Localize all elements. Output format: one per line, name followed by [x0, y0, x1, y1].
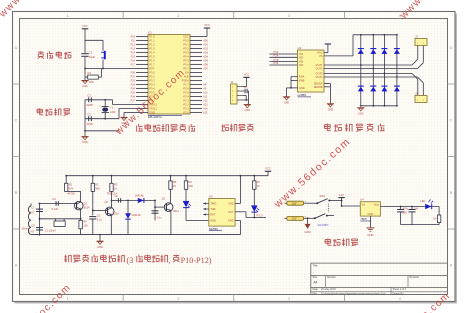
svg-text:0.47: 0.47	[29, 211, 35, 215]
svg-text:AD5: AD5	[203, 59, 208, 62]
svg-text:Size: Size	[313, 276, 318, 279]
svg-text:25V: 25V	[403, 211, 408, 214]
svg-text:Q3: Q3	[162, 196, 166, 200]
svg-text:A4: A4	[314, 280, 318, 284]
svg-text:P1.4: P1.4	[149, 50, 155, 54]
svg-text:0.1u: 0.1u	[97, 218, 103, 222]
svg-text:OUT3: OUT3	[316, 71, 323, 75]
svg-text:GND: GND	[245, 109, 251, 112]
svg-text:P3.2: P3.2	[149, 78, 155, 82]
svg-text:P2.6: P2.6	[183, 86, 189, 90]
svg-text:Drawn By:: Drawn By:	[393, 292, 405, 295]
svg-text:0.47: 0.47	[29, 229, 35, 233]
svg-text:A: A	[450, 263, 453, 268]
svg-text:R1: R1	[88, 71, 92, 75]
svg-text:P37: P37	[131, 99, 136, 102]
svg-text:R4: R4	[83, 220, 87, 224]
svg-text:L298N: L298N	[298, 93, 307, 97]
svg-text:IN4: IN4	[299, 63, 304, 67]
svg-text:P2.0: P2.0	[183, 110, 189, 114]
svg-text:C8: C8	[31, 224, 35, 228]
svg-text:P0.7: P0.7	[183, 66, 189, 70]
svg-text:P2.5: P2.5	[183, 90, 189, 94]
svg-text:P16: P16	[274, 61, 279, 65]
svg-text:100: 100	[83, 224, 88, 228]
svg-text:1K: 1K	[114, 187, 117, 191]
svg-text:P32: P32	[131, 79, 136, 82]
svg-text:VCC: VCC	[204, 23, 210, 27]
svg-text:22PF: 22PF	[87, 122, 94, 126]
svg-text:GND: GND	[82, 85, 88, 88]
svg-text:10uF: 10uF	[89, 55, 96, 59]
svg-text:AD1: AD1	[203, 43, 208, 46]
svg-text:22PF: 22PF	[87, 103, 94, 107]
svg-text:P14: P14	[131, 51, 136, 54]
svg-text:L2 10mH: L2 10mH	[45, 229, 56, 233]
svg-text:IN2: IN2	[299, 55, 304, 59]
svg-text:C7: C7	[31, 205, 35, 209]
svg-text:GND: GND	[228, 218, 234, 222]
svg-text:P16: P16	[131, 59, 136, 62]
svg-text:P3.0: P3.0	[149, 70, 155, 74]
svg-text:P1.0: P1.0	[257, 213, 263, 217]
svg-text:VS: VS	[319, 54, 323, 58]
svg-text:NE555: NE555	[209, 227, 219, 231]
svg-text:470u: 470u	[403, 208, 409, 211]
svg-text:Vin: Vin	[362, 203, 366, 207]
svg-text:300: 300	[188, 184, 193, 188]
svg-text:THR: THR	[210, 207, 215, 211]
svg-text:File:: File:	[313, 292, 318, 295]
svg-text:D: D	[15, 45, 18, 50]
svg-text:Vout: Vout	[374, 203, 379, 207]
svg-text:TRIG: TRIG	[210, 201, 216, 205]
svg-text:GND: GND	[97, 246, 103, 249]
svg-text:GND: GND	[368, 212, 374, 216]
svg-text:SW-DPDT: SW-DPDT	[318, 224, 330, 227]
svg-text:P35: P35	[131, 91, 136, 94]
svg-text:OUT2: OUT2	[316, 66, 323, 70]
svg-text:U2: U2	[298, 46, 302, 50]
svg-text:P15: P15	[131, 55, 136, 58]
svg-text:P2.1: P2.1	[183, 106, 189, 110]
svg-text:GND: GND	[358, 113, 364, 116]
svg-text:OUT1: OUT1	[316, 63, 323, 67]
svg-text:SW1: SW1	[320, 194, 326, 198]
svg-text:10K: 10K	[89, 80, 94, 84]
svg-text:P13: P13	[131, 47, 136, 50]
svg-text:P10-P12): P10-P12)	[181, 256, 212, 265]
svg-text:Date:: Date:	[313, 288, 319, 291]
svg-text:AD3: AD3	[203, 51, 208, 54]
svg-text:AD7: AD7	[203, 67, 208, 70]
svg-text:J1: J1	[231, 80, 234, 84]
svg-text:AD2: AD2	[203, 47, 208, 50]
svg-text:Sheet 1 of 1: Sheet 1 of 1	[393, 288, 407, 291]
svg-text:-: -	[282, 217, 283, 221]
svg-text:C2: C2	[87, 94, 91, 98]
svg-text:Number: Number	[327, 276, 336, 279]
svg-text:E:\design\jinshu-jiance\danpia: E:\design\jinshu-jiance\danpianji-zuixia…	[321, 292, 386, 295]
svg-text:C3: C3	[87, 112, 91, 116]
svg-text:J2: J2	[415, 34, 418, 38]
svg-text:P0.5: P0.5	[183, 58, 189, 62]
svg-text:P2.2: P2.2	[183, 102, 189, 106]
svg-text:ENB: ENB	[299, 78, 305, 82]
svg-text:AD6: AD6	[203, 63, 208, 66]
svg-text:1K: 1K	[257, 184, 260, 188]
svg-text:47K: 47K	[69, 187, 74, 191]
svg-text:9014: 9014	[173, 209, 179, 213]
svg-text:Title: Title	[313, 264, 318, 268]
svg-text:A15: A15	[203, 111, 208, 114]
svg-text:R5: R5	[173, 180, 177, 184]
svg-text:P0.1: P0.1	[183, 42, 189, 46]
svg-text:P11: P11	[131, 39, 136, 42]
svg-text:D: D	[450, 45, 453, 50]
svg-text:0.1u: 0.1u	[157, 217, 162, 220]
svg-text:P12: P12	[131, 43, 136, 46]
svg-text:10mH: 10mH	[21, 227, 28, 231]
svg-text:P1.1: P1.1	[149, 38, 155, 42]
svg-text:R2: R2	[95, 183, 99, 187]
svg-text:1.5V: 1.5V	[292, 203, 297, 206]
svg-text:GND: GND	[284, 101, 290, 104]
svg-text:R7: R7	[257, 180, 261, 184]
svg-text:U4: U4	[360, 198, 364, 202]
svg-text:VCC: VCC	[265, 167, 271, 171]
svg-text:C: C	[450, 118, 453, 123]
svg-text:TRD C1A: TRD C1A	[107, 193, 118, 196]
svg-text:SENSB: SENSB	[314, 85, 323, 89]
svg-text:P0.2: P0.2	[183, 46, 189, 50]
svg-text:IN3: IN3	[299, 60, 304, 64]
svg-text:GND: GND	[149, 110, 155, 114]
svg-text:B: B	[450, 190, 453, 195]
svg-text:A13: A13	[203, 103, 208, 106]
svg-text:P10: P10	[131, 35, 136, 38]
svg-text:,: ,	[168, 256, 170, 265]
svg-text:P1.2: P1.2	[149, 42, 155, 46]
svg-text:C4: C4	[52, 197, 56, 201]
svg-text:Q2: Q2	[105, 200, 109, 204]
svg-text:AD0: AD0	[203, 39, 208, 42]
svg-text:VCC: VCC	[183, 34, 189, 38]
svg-text:P31: P31	[131, 75, 136, 78]
svg-text:B: B	[15, 190, 18, 195]
svg-text:ENA: ENA	[299, 75, 305, 79]
svg-text:P15: P15	[274, 58, 279, 62]
svg-text:GND: GND	[210, 218, 216, 222]
svg-text:P34: P34	[131, 87, 136, 90]
svg-text:A10: A10	[203, 91, 208, 94]
svg-text:Revision: Revision	[410, 276, 420, 279]
svg-text:Y1: Y1	[110, 105, 114, 109]
svg-text:VDD: VDD	[228, 201, 234, 205]
svg-text:9014: 9014	[113, 211, 119, 215]
svg-text:VCC: VCC	[82, 24, 88, 28]
svg-text:P36: P36	[131, 95, 136, 98]
svg-text:P0.6: P0.6	[183, 62, 189, 66]
svg-text:U1: U1	[148, 30, 152, 34]
svg-text:P2.7: P2.7	[183, 82, 189, 86]
svg-text:12M: 12M	[110, 110, 116, 114]
svg-text:P30: P30	[131, 71, 136, 74]
svg-text:P1.3: P1.3	[149, 46, 155, 50]
svg-text:C: C	[15, 118, 18, 123]
svg-text:P33: P33	[131, 83, 136, 86]
svg-text:A: A	[15, 263, 18, 268]
svg-text:GND: GND	[328, 108, 334, 111]
svg-text:26-May-2019: 26-May-2019	[321, 288, 336, 291]
svg-text:VCC: VCC	[244, 74, 249, 77]
svg-text:A14: A14	[203, 107, 208, 110]
svg-text:P14: P14	[274, 54, 279, 58]
svg-text:P2.4: P2.4	[183, 94, 189, 98]
svg-text:P1.0: P1.0	[149, 34, 155, 38]
svg-text:1N4148: 1N4148	[131, 213, 141, 217]
svg-text:GND: GND	[367, 233, 373, 237]
svg-text:P17: P17	[131, 63, 136, 66]
svg-text:P3.1: P3.1	[149, 74, 155, 78]
svg-text:OUT4: OUT4	[316, 75, 323, 79]
svg-text:J3: J3	[415, 91, 418, 95]
svg-text:(3: (3	[127, 256, 134, 265]
svg-text:4K750: 4K750	[68, 193, 76, 196]
svg-text:1.5V: 1.5V	[292, 218, 297, 221]
svg-text:LED: LED	[421, 200, 426, 203]
svg-text:GND: GND	[82, 141, 88, 144]
svg-text:SENSA: SENSA	[314, 81, 323, 85]
svg-text:RST: RST	[210, 212, 216, 216]
svg-text:RST: RST	[149, 66, 155, 70]
svg-text:P0.4: P0.4	[183, 54, 189, 58]
svg-text:0.1uF: 0.1uF	[52, 207, 59, 211]
svg-text:C5: C5	[97, 213, 101, 217]
svg-text:104: 104	[414, 208, 419, 211]
svg-text:OUT: OUT	[228, 210, 234, 214]
svg-text:P1.7: P1.7	[149, 62, 155, 66]
svg-text:P3.3: P3.3	[149, 82, 155, 86]
svg-text:1K: 1K	[173, 184, 176, 188]
svg-text:P1.6: P1.6	[149, 58, 155, 62]
svg-text:GND: GND	[299, 86, 305, 90]
svg-text:R6: R6	[188, 180, 192, 184]
svg-text:R1: R1	[69, 183, 73, 187]
svg-text:P1.5: P1.5	[149, 54, 155, 58]
svg-text:Q1: Q1	[84, 201, 88, 205]
svg-text:AD4: AD4	[203, 55, 208, 58]
svg-text:9014: 9014	[84, 205, 90, 209]
svg-text:12V: 12V	[339, 193, 344, 197]
svg-text:5K6: 5K6	[95, 187, 100, 191]
svg-text:U3: U3	[209, 194, 213, 198]
svg-text:P0.0: P0.0	[183, 38, 189, 42]
svg-text:A12: A12	[203, 99, 208, 102]
svg-text:P0.3: P0.3	[183, 50, 189, 54]
svg-text:P2.3: P2.3	[183, 98, 189, 102]
svg-text:R3: R3	[114, 183, 118, 187]
svg-text:1N4148: 1N4148	[135, 194, 145, 198]
svg-text:1K: 1K	[433, 217, 436, 221]
svg-text:7805: 7805	[360, 217, 367, 221]
svg-text:GND: GND	[304, 230, 310, 234]
svg-text:A11: A11	[203, 95, 208, 98]
